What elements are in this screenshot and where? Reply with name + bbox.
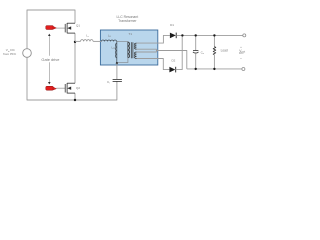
capacitor Cr (resonant capacitor) bbox=[113, 79, 122, 81]
wire: node to Lr bbox=[75, 40, 81, 42]
junction dot D1/D2 outputs bbox=[181, 34, 183, 36]
resistor Load bbox=[213, 35, 216, 69]
wire: center tap to bottom output rail bbox=[156, 51, 186, 69]
transformer core lines bbox=[130, 42, 132, 58]
inductor Lm (magnetizing inductance) bbox=[116, 41, 117, 63]
source Vin circle bbox=[23, 49, 32, 58]
svg-text:D2: D2 bbox=[171, 58, 175, 62]
svg-text:Q1: Q1 bbox=[76, 24, 80, 28]
node A junction dot (half-bridge midpoint) bbox=[74, 41, 76, 43]
svg-text:DC: DC bbox=[239, 51, 244, 55]
svg-text:Load: Load bbox=[221, 49, 228, 53]
svg-text:D1: D1 bbox=[170, 23, 174, 27]
wire: Lr to box bbox=[93, 40, 101, 42]
annotation arrow up to Q1 gate signal bbox=[48, 34, 51, 56]
transistor Q2 bbox=[56, 83, 75, 93]
wire: secondary inner taps center tap bracket bbox=[137, 49, 157, 52]
svg-text:Lm: Lm bbox=[112, 46, 116, 51]
capacitor Co bbox=[193, 35, 199, 69]
diode D2 bbox=[169, 67, 175, 73]
junction dots Load on rails bbox=[213, 34, 215, 36]
wire: input left rail and top rail to Q1 drain bbox=[27, 10, 75, 49]
wire: Ls to primary top bbox=[117, 40, 128, 43]
inductor Lr (external resonant inductor) bbox=[81, 40, 94, 42]
svg-text:Gate drive: Gate drive bbox=[41, 57, 59, 62]
diode D1 bbox=[170, 33, 176, 39]
inductor Ls (series leakage inductance inside box) bbox=[101, 40, 116, 41]
annotation arrow down to Q2 gate signal bbox=[48, 62, 51, 84]
wire: secondary bottom tap to D2 bbox=[137, 59, 170, 70]
svg-text:T1: T1 bbox=[129, 32, 133, 36]
wire: Q1 source to node to Q2 drain bbox=[74, 33, 76, 83]
svg-text:Q2: Q2 bbox=[76, 86, 80, 90]
svg-text:–: – bbox=[240, 56, 242, 60]
wire: secondary top tap to D1 bbox=[137, 35, 170, 43]
svg-text:Transformer: Transformer bbox=[118, 19, 137, 23]
gate drive red arrow top bbox=[46, 26, 57, 30]
wire: Lm bottom junction down to Cr bbox=[116, 63, 118, 79]
junction dot Lm bottom bbox=[116, 62, 118, 64]
terminal Vout- bbox=[242, 68, 245, 71]
wire: primary bottom return to Lm bottom bbox=[117, 58, 128, 63]
wire: Q2 source to bottom rail bbox=[74, 93, 76, 100]
transistor Q1 bbox=[56, 23, 75, 33]
gate drive red arrow bottom bbox=[46, 86, 57, 90]
junction dots Co on rails bbox=[195, 34, 197, 36]
terminal Vout+ bbox=[243, 34, 246, 37]
transformer T1 secondary winding lower bbox=[135, 52, 137, 58]
transformer block shaded box bbox=[100, 30, 157, 65]
svg-text:from PFC: from PFC bbox=[3, 52, 17, 56]
transformer T1 secondary winding upper bbox=[135, 43, 137, 49]
wire: source bottom to bottom rail to Cr bbox=[27, 57, 117, 100]
transformer T1 primary winding bbox=[128, 42, 130, 58]
wire: D2 cathode riser to top rail bbox=[176, 35, 183, 69]
wire: top output rail bbox=[176, 34, 243, 36]
wire: bottom output rail bbox=[187, 68, 242, 70]
junction dot Q2 source on bottom rail bbox=[74, 99, 76, 101]
